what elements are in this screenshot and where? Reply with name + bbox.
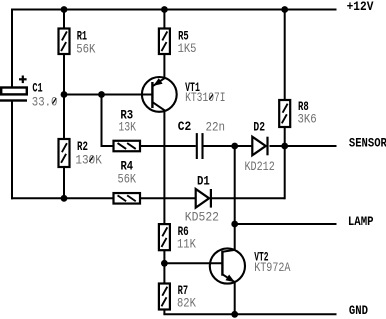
svg-text:C1: C1 [32,80,42,95]
wire R1 bottom lead [63,54,65,95]
svg-text:KT972A: KT972A [254,260,290,275]
wire bottom-left row (left wire to R4) [11,197,114,199]
resistor R1 [59,29,96,57]
net label SENSOR [349,136,386,151]
node top bus / R8 [281,6,288,13]
wire left vertical (top bus to C1 top) [11,9,13,88]
wire R5 top lead [163,10,165,29]
wire left vertical (C1 bottom to bottom row) [11,101,13,200]
capacitor C1 [0,76,57,110]
diode D2 KD212 [245,120,275,174]
wire R3 to C2 [140,145,196,147]
wire R4 to D1 anode [140,197,196,199]
wire D1 cathode to corner below R8 [212,197,285,199]
wire VT2 base row [164,262,222,264]
svg-text:KT3107I: KT3107I [185,90,226,105]
net label +12V [347,0,374,14]
wire R8 bottom lead [284,127,286,146]
diode D1 KD522 [185,174,219,225]
svg-text:130K: 130K [75,152,102,167]
node GND / VT2 emitter [231,311,238,318]
svg-text:1K5: 1K5 [178,41,197,56]
slashed zeros (value font style) [53,94,213,161]
svg-text:C2: C2 [178,119,192,134]
resistor R6 [159,224,196,251]
node R6-R7 VT2 base [161,260,168,267]
svg-text:82K: 82K [177,295,196,310]
svg-text:D2: D2 [253,120,265,135]
wire VT1 collector to R6 [163,111,165,225]
svg-text:56K: 56K [76,42,95,57]
transistor VT2 KT972A (NPN) [210,248,291,283]
svg-text:13K: 13K [118,120,136,135]
svg-text:SENSOR: SENSOR [349,136,386,151]
wire LAMP row [235,223,337,225]
node base / R3 branch [98,91,105,98]
svg-text:11K: 11K [177,236,196,251]
node C2 out SENSOR [231,143,238,150]
wire C2 node down to LAMP row [234,146,236,224]
svg-text:22n: 22n [206,120,226,135]
resistor R4 [114,159,141,204]
capacitor C2 [178,119,225,159]
wire VT1 base row [64,94,153,96]
node R1-R2 base [61,91,68,98]
svg-text:+12V: +12V [347,0,374,14]
wire vertical D1 row up to SENSOR node [284,146,286,199]
resistor R2 [59,139,102,167]
wire R3 branch vertical [101,95,103,147]
svg-text:56K: 56K [118,172,137,187]
wire R2 top lead [63,95,65,140]
net label GND [349,303,368,318]
wire C2 to SENSOR node [204,145,253,147]
wire R3 branch horizontal to R3 [101,145,114,147]
wire SENSOR node to right edge [285,145,337,147]
node LAMP / VT2 collector [231,221,238,228]
wire D2 cathode to R8 node [270,145,285,147]
resistor R5 [159,29,197,56]
wire VT2 collector lead [234,224,236,250]
svg-text:KD212: KD212 [245,159,275,174]
node top bus / R5 [161,6,168,13]
resistor R8 [279,99,317,127]
svg-text:D1: D1 [197,174,210,189]
wire R1 top lead [63,10,65,29]
node D2-R8 SENSOR [281,143,288,150]
wire R7 top lead [163,263,165,283]
net label LAMP [348,214,374,229]
wire R8 top lead [284,10,286,101]
wire top +12V bus [12,9,337,11]
wire R6 bottom lead [163,250,165,263]
svg-text:GND: GND [349,303,368,318]
wire VT2 emitter lead to GND [234,282,236,314]
transistor VT1 KT3107I (PNP) [142,77,226,112]
resistor R3 [114,107,141,151]
wire R2 bottom lead [63,167,65,198]
svg-text:KD522: KD522 [185,210,219,225]
wire R7 bottom lead and GND row start [163,310,336,315]
node R2 bottom row [61,195,68,202]
wire R5 bottom lead to VT1 emitter [163,54,165,78]
resistor R7 [159,283,196,310]
svg-text:3K6: 3K6 [298,111,317,126]
svg-text:LAMP: LAMP [348,214,374,229]
node top bus / R1 [61,6,68,13]
